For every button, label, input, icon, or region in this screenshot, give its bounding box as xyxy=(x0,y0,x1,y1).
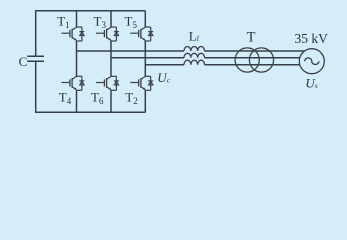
svg-text:C: C xyxy=(19,54,28,69)
svg-text:T: T xyxy=(247,29,256,45)
svg-text:35 kV: 35 kV xyxy=(295,31,329,46)
